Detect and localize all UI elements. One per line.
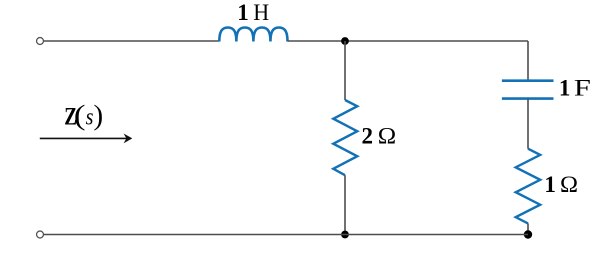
svg-text:(: ( bbox=[74, 100, 86, 132]
svg-text:H: H bbox=[253, 0, 269, 25]
svg-text:1: 1 bbox=[237, 0, 249, 25]
wire: resistor R1 to bottom node B bbox=[344, 175, 346, 234]
terminal bottom-left bbox=[37, 231, 44, 238]
svg-text:Ω: Ω bbox=[560, 172, 578, 197]
resistor R2 1ohm bbox=[516, 149, 541, 224]
wire: right corner down to capacitor C1 bbox=[527, 41, 529, 81]
terminal top-left bbox=[37, 38, 44, 45]
node B junction dot bottom bbox=[341, 231, 349, 239]
wire top: inductor to node A bbox=[288, 40, 346, 42]
svg-text:Ω: Ω bbox=[378, 124, 396, 149]
svg-text:): ) bbox=[94, 100, 104, 132]
wire: capacitor to resistor R2 bbox=[527, 99, 529, 149]
wire bottom: terminal to node C bbox=[44, 234, 528, 236]
wire: node A down to resistor R1 bbox=[344, 41, 346, 100]
wire top: terminal to inductor bbox=[44, 40, 220, 42]
arrow for Z(s) bbox=[40, 137, 128, 139]
wire: resistor R2 to bottom node C bbox=[527, 223, 529, 234]
wire top: node A to right corner bbox=[345, 40, 528, 42]
svg-text:s: s bbox=[86, 104, 94, 130]
svg-text:1: 1 bbox=[544, 172, 556, 197]
svg-text:2: 2 bbox=[362, 124, 374, 149]
svg-text:F: F bbox=[574, 75, 591, 100]
resistor R1 2ohm bbox=[333, 100, 357, 175]
svg-text:1: 1 bbox=[559, 75, 571, 100]
node A junction dot top bbox=[341, 37, 349, 45]
capacitor C1 1F bbox=[502, 79, 554, 82]
node C junction dot bottom right bbox=[524, 230, 532, 238]
inductor L 1H bbox=[219, 28, 287, 42]
